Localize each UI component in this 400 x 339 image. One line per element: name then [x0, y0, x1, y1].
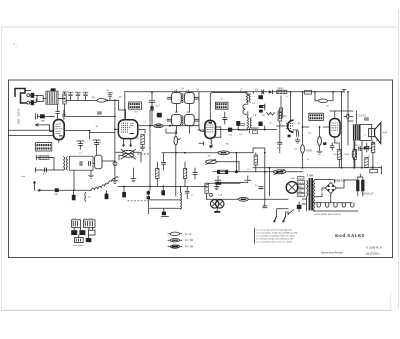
svg-text:0,1: 0,1: [240, 134, 244, 136]
svg-text:L5 - L6 bobina oscillatrice OM: L5 - L6 bobina oscillatrice OM - OC 465 …: [256, 235, 296, 238]
wire cap row: [37, 115, 115, 117]
wiper arrow: [178, 139, 181, 140]
heater bus bottom: [313, 210, 358, 212]
T3 grid dashes: [286, 124, 294, 129]
IFT lower wires: [166, 126, 189, 133]
cap C14: [347, 114, 349, 119]
cap left of L5: [167, 119, 172, 121]
series blob on AF line: [228, 128, 232, 132]
svg-text:dal 03/1950 c.: dal 03/1950 c.: [366, 253, 381, 255]
osc coil L5 squiggle: [64, 157, 65, 171]
svg-text:Valvole serie Rimlock: Valvole serie Rimlock: [321, 252, 344, 255]
junction: [353, 167, 355, 169]
resistor oval R8: [318, 137, 322, 146]
junction: [175, 152, 177, 154]
junction: [162, 186, 164, 188]
U wire with cap T-bars: [215, 176, 251, 183]
junction: [302, 167, 304, 169]
right bus y167.8: [253, 167, 381, 169]
T5 X electrodes: [289, 184, 295, 190]
transformer core bars: [309, 178, 311, 210]
blob on bus C: [215, 182, 221, 185]
IF2 cap block right: [258, 95, 263, 99]
T2 cathode ground triangle: [209, 146, 214, 149]
cap right of coil: [185, 186, 189, 198]
antenna plug: [15, 89, 27, 104]
L6 window lower: [185, 114, 195, 125]
wire T3 top to bus: [290, 92, 292, 121]
blob on bus B stub: [162, 186, 164, 190]
trimmer zigzag: [267, 113, 275, 115]
junction: [176, 132, 178, 134]
svg-text:TAB: TAB: [41, 120, 46, 123]
cap left of L3: [167, 97, 172, 99]
resistor R4b on rail: [183, 169, 186, 179]
resistor R9: [338, 149, 341, 159]
wire through lamps: [207, 198, 240, 200]
svg-text:1M: 1M: [283, 115, 286, 118]
resistor R15: [254, 155, 257, 165]
rail x148.3 lower: [147, 191, 149, 215]
svg-text:50: 50: [356, 145, 359, 147]
osc section box: [70, 156, 94, 170]
tube A plate wire: [64, 131, 115, 139]
strip middle blocks: [71, 230, 77, 235]
cap right of L4: [194, 97, 199, 99]
svg-text:rete: rete: [22, 175, 26, 178]
T4 cathode stem: [335, 137, 339, 143]
line from frame y135.5: [9, 135, 54, 137]
electrolytic cap E2: [361, 180, 364, 191]
small box on bus 2: [305, 90, 312, 94]
bus end T-bar right: [378, 166, 381, 174]
cap C3 T-top: [68, 92, 74, 98]
svg-text:5600: 5600: [278, 87, 284, 90]
cap C20 below bus: [73, 190, 75, 195]
pot arrow: [206, 159, 239, 164]
cap C9 on row: [45, 168, 47, 173]
dashed mech link: [128, 200, 149, 202]
heater loop 4: [342, 203, 345, 207]
svg-text:4,7: 4,7: [43, 174, 47, 176]
cap C16: [364, 118, 369, 120]
R15 lead down: [255, 153, 257, 172]
T4 grid dashes: [332, 123, 339, 130]
bus end T-bar: [342, 90, 346, 92]
volume pot 2 oval: [273, 170, 285, 174]
svg-text:77k: 77k: [308, 133, 312, 135]
svg-text:R = 3W: R = 3W: [185, 246, 194, 249]
junction: [184, 152, 186, 154]
svg-text:m1: m1: [197, 90, 201, 92]
junction: [123, 186, 125, 188]
resistor R3 cathode: [141, 135, 144, 145]
T2 right feedback box: [213, 127, 221, 137]
cap C7: [157, 113, 162, 118]
svg-text:L7: L7: [240, 88, 243, 91]
svg-text:u.m.: u.m.: [73, 218, 78, 220]
wire plug to connector: [25, 91, 31, 103]
page edge bottom: [2, 309, 391, 311]
tube A grid dots: [56, 124, 63, 134]
junction dot plate A: [89, 130, 91, 132]
switch box S1: [37, 96, 43, 102]
T4 grid wire: [323, 126, 329, 128]
bridge diode marks: [328, 185, 334, 192]
fuse oval on plate wire: [154, 124, 163, 128]
cap C15: [359, 146, 361, 151]
svg-text:5 CA 2: 5 CA 2: [358, 114, 366, 118]
connector cap C2: [31, 100, 35, 105]
legend row 1 symbol: [170, 232, 180, 235]
legend row 2 symbol: [170, 239, 180, 242]
wire row y157.5: [36, 158, 54, 170]
valve label box ECH42: [129, 102, 142, 109]
osc box drop to bus: [73, 170, 75, 190]
junction: [264, 171, 266, 173]
junction: [264, 129, 266, 131]
svg-text:L1 - L2 avvolg. antenna: L1 - L2 avvolg. antenna mod. KA2 560: [256, 229, 292, 232]
T2 cathode squiggle: [211, 138, 212, 145]
L3 window: [172, 92, 182, 103]
vertical rail x236.4: [235, 153, 237, 173]
wire row y170: [36, 169, 64, 171]
bottom bus left: [35, 186, 92, 190]
svg-text:2: 2: [365, 135, 367, 137]
antenna contact pin 1: [27, 94, 30, 97]
svg-text:ds.7: ds.7: [155, 105, 160, 107]
cap C5 T-top: [83, 92, 89, 98]
svg-text:47000: 47000: [305, 150, 312, 152]
bridge rectifier diamond: [325, 182, 336, 193]
cap right lower: [258, 122, 262, 126]
svg-text:L5: L5: [88, 196, 91, 198]
junction dot: [235, 170, 238, 173]
tiny box on AF line: [253, 131, 258, 134]
svg-text:0,1: 0,1: [221, 99, 225, 101]
resistor box row3: [217, 170, 227, 173]
tube T1 ECH42 envelope: [118, 120, 137, 139]
svg-text:L4: L4: [182, 88, 185, 90]
box 390 on bus: [370, 169, 378, 172]
wire row y152.8: [162, 152, 253, 154]
drop x302.5 rail: [302, 92, 304, 168]
T3 rail left down: [279, 121, 281, 142]
cap right of tube A top: [62, 110, 65, 120]
ground T mid: [131, 176, 137, 182]
junction dots mid: [114, 116, 116, 118]
svg-text:0,5: 0,5: [248, 169, 252, 171]
wire osc to tube rail: [93, 161, 115, 164]
T1 cathode stem 1: [123, 139, 125, 145]
svg-text:30: 30: [96, 126, 99, 128]
bottom blob to ground: [163, 208, 165, 211]
heater loop 1: [317, 203, 320, 207]
svg-text:2n: 2n: [255, 185, 258, 187]
junction dot plate: [169, 125, 171, 127]
long vertical rail x150: [149, 110, 151, 190]
wire secondary to bridge loop: [315, 180, 335, 197]
schematic border frame: [9, 80, 393, 258]
T5 pin label boxes: [297, 181, 305, 184]
electrolytic cap E1: [356, 180, 359, 191]
svg-text:8: 8: [287, 96, 289, 98]
resistor R2 dark: [150, 106, 153, 111]
svg-text:50: 50: [270, 123, 273, 125]
plate loop wire of T2: [210, 93, 248, 121]
mains wires: [277, 209, 289, 217]
svg-text:32+32 µF: 32+32 µF: [363, 192, 374, 195]
transformer bottom wires: [302, 196, 307, 210]
T1 cathode stem 2: [130, 139, 132, 145]
box above T5: [298, 176, 304, 179]
resistor R10: [353, 149, 356, 159]
terminal strip detail box 1: [72, 220, 81, 228]
bus A (AVC line left): [66, 99, 119, 101]
R4 leads: [156, 162, 158, 186]
wire switch to coil: [43, 98, 46, 100]
cap under coil end: [106, 191, 108, 194]
valve label box EL41: [309, 113, 324, 120]
svg-text:0,1: 0,1: [277, 147, 281, 150]
svg-text:47k: 47k: [134, 112, 138, 114]
tube A anode bar: [59, 135, 63, 137]
C24 leads: [194, 168, 196, 179]
bridge output wires: [322, 180, 356, 203]
pot wire drop: [238, 162, 240, 172]
IFT2 core squiggle bottom: [182, 116, 183, 125]
cap on row drop: [163, 153, 165, 162]
svg-text:262: 262: [228, 135, 232, 137]
tube T1 grid dashes: [121, 123, 134, 132]
svg-text:L9: L9: [254, 114, 257, 117]
diode D1 on bus: [269, 90, 272, 93]
resistor oval row1: [218, 151, 229, 155]
strip bottom blocks: [75, 238, 84, 243]
trimmer oval 1: [123, 150, 134, 154]
L8 coil: [249, 94, 250, 102]
svg-text:L8: L8: [253, 103, 256, 105]
svg-text:5k: 5k: [107, 90, 110, 92]
valve label box OSC: [36, 143, 52, 151]
heater loop 5: [351, 203, 354, 207]
ground under lamps: [216, 208, 218, 211]
dial lamp 2: [216, 200, 224, 208]
page edge right: [398, 10, 400, 308]
pickup up-arrow: [33, 181, 35, 185]
svg-text:50: 50: [327, 106, 330, 108]
IF2 wires: [238, 93, 258, 133]
fuse blob: [297, 205, 302, 209]
junction: [347, 91, 349, 93]
vertical resistor before lamps: [205, 183, 208, 193]
ground under R8: [317, 149, 323, 155]
bus segment C upper: [207, 182, 240, 184]
svg-text:0,5: 0,5: [295, 149, 299, 151]
connector cap C1: [31, 93, 35, 98]
cap C6 T-top: [107, 93, 113, 99]
svg-text:17: 17: [191, 195, 194, 197]
IFT1 wires bottom: [176, 104, 189, 112]
ground bar: [161, 215, 168, 217]
resistor R11: [365, 157, 368, 167]
R4b leads: [184, 162, 186, 186]
resistor oval 47000 on rail: [301, 145, 305, 154]
loop bottom line: [150, 207, 181, 209]
resistor R6: [279, 108, 282, 118]
wire resistor to bus C: [206, 183, 208, 199]
trimmer oval 2: [123, 154, 134, 158]
paper speck 2: [15, 46, 18, 47]
svg-text:25: 25: [307, 159, 310, 161]
terminal strip detail box 2: [83, 220, 95, 228]
drop x281 to resistor: [280, 96, 282, 108]
wire L1 to R1: [58, 92, 66, 116]
cap right of L6: [194, 119, 199, 121]
blobs on rail: [147, 191, 150, 194]
cap C4 T-top: [75, 92, 81, 98]
resistor R4: [156, 169, 159, 179]
cap C18: [259, 187, 264, 189]
cap above box 1: [78, 144, 83, 146]
ground under box: [88, 173, 94, 179]
svg-text:EB: EB: [298, 123, 301, 125]
loop top line: [150, 199, 181, 201]
resistor box on row: [39, 156, 49, 159]
svg-text:4 V 2: 4 V 2: [298, 182, 304, 184]
cap above box 2: [94, 143, 99, 145]
valve label box EBF80: [215, 102, 228, 109]
T3 grid wire left: [277, 125, 286, 127]
svg-text:170: 170: [333, 154, 337, 156]
speaker cone: [375, 123, 381, 144]
junction: [73, 189, 75, 191]
page corner fold right: [390, 292, 392, 310]
svg-text:L9 - L10 bobina onde corte: L9 - L10 bobina onde corte 5,9 - 18 Mc.: [256, 241, 293, 244]
line from frame y130: [9, 129, 54, 131]
osc coil L6 squiggle: [66, 157, 67, 171]
circle contact gang: [113, 162, 117, 166]
cap C12: [277, 142, 282, 144]
T2 left T-bar terminal: [199, 142, 204, 145]
T1 cathode arrow 2: [129, 145, 132, 148]
svg-text:mod.KALEX: mod.KALEX: [335, 233, 365, 238]
svg-text:140: 140: [291, 178, 295, 180]
transformer frame box: [360, 124, 372, 140]
padder coil window: [95, 155, 102, 169]
junction dot AF line: [238, 129, 240, 131]
tube A cathode stem: [58, 140, 60, 143]
T1 cathode arrow 1: [122, 145, 125, 148]
coil top tie: [180, 186, 182, 192]
svg-text:N. 10368 Ril. B: N. 10368 Ril. B: [366, 247, 382, 249]
rail left of gang: [114, 100, 116, 177]
bus segment B: [118, 185, 207, 187]
inline black comp: [55, 188, 59, 192]
drop x253.5: [253, 92, 255, 93]
junction: [319, 126, 321, 128]
AVC arrow: [35, 124, 38, 127]
wire R8: [319, 127, 321, 149]
caps stack right: [259, 105, 263, 108]
svg-text:L5: L5: [175, 111, 178, 114]
L9 coil lower: [247, 118, 248, 128]
tube A envelope: [53, 120, 64, 140]
L4 window: [185, 92, 195, 103]
vertical rail x269.5: [269, 168, 271, 196]
junction: [372, 167, 374, 169]
cap T-bar left: [36, 114, 38, 120]
tube T4 envelope: [330, 119, 340, 137]
rails down from transformer: [342, 92, 373, 168]
dial lamp 1: [210, 200, 218, 208]
ground K area: [214, 184, 220, 190]
svg-text:500: 500: [226, 144, 230, 146]
junction: [236, 152, 238, 154]
bus corner drop to tube T1: [124, 92, 126, 120]
mech link dashes gang: [138, 153, 151, 155]
resistor box on bus: [277, 90, 287, 93]
ground under T3 cap: [295, 137, 301, 143]
svg-text:R = Ω: R = Ω: [185, 233, 191, 236]
L5 window lower: [172, 114, 182, 125]
T3 right cap: [294, 130, 299, 136]
pot with arrow: [206, 160, 217, 164]
svg-text:vista piastr.: vista piastr.: [73, 244, 84, 247]
svg-text:47: 47: [137, 138, 140, 141]
page edge top: [2, 26, 399, 28]
tuning arrow: [121, 150, 136, 160]
fuse oval on bus A: [96, 99, 108, 103]
antenna coil L1 box: [46, 91, 58, 104]
cap blob beside R8: [323, 142, 326, 145]
svg-text:T 5A: T 5A: [307, 174, 314, 178]
T3 cathode blob: [288, 135, 291, 138]
cap TAB black: [40, 114, 45, 118]
horizontal coil LP (slanted): [91, 177, 118, 190]
svg-text:L.P: L.P: [219, 194, 223, 197]
stub ends left: [36, 155, 37, 172]
coupling arc: [243, 104, 247, 115]
T2 top cap blob: [209, 122, 212, 124]
svg-text:L3 - L4 trasform. media freq.: L3 - L4 trasform. media freq. 520/465 kc…: [256, 232, 298, 235]
ground under rail: [112, 178, 118, 184]
svg-text:L2: L2: [144, 122, 147, 124]
IFT1 connecting wires top: [176, 91, 189, 93]
ground below R3: [140, 145, 146, 151]
heater loop 2: [325, 203, 328, 207]
resistor R12: [371, 142, 374, 152]
transformer secondary loops: [313, 180, 316, 211]
brace symbol: [84, 192, 87, 201]
svg-text:R = 1W: R = 1W: [185, 239, 194, 242]
svg-text:220 - 110 V.: 220 - 110 V.: [17, 108, 21, 124]
speaker magnet box: [369, 129, 375, 137]
svg-text:L7 - L8 trasf. media freq. II: L7 - L8 trasf. media freq. II 465 kc/s 4…: [256, 238, 294, 241]
svg-text:L6: L6: [104, 184, 107, 186]
wire out of T1 right: [138, 125, 199, 127]
pot 2 arrow: [275, 169, 285, 174]
AVC line: [38, 125, 53, 132]
resistor oval R14: [352, 150, 356, 159]
svg-text:A.P.: A.P.: [383, 132, 388, 135]
cap C24: [193, 173, 198, 175]
T2 grid dashes: [207, 125, 215, 132]
mains switch lever: [289, 210, 294, 214]
cap T-bar on column: [149, 101, 154, 103]
junction: [302, 126, 304, 128]
cap C19: [262, 206, 267, 208]
